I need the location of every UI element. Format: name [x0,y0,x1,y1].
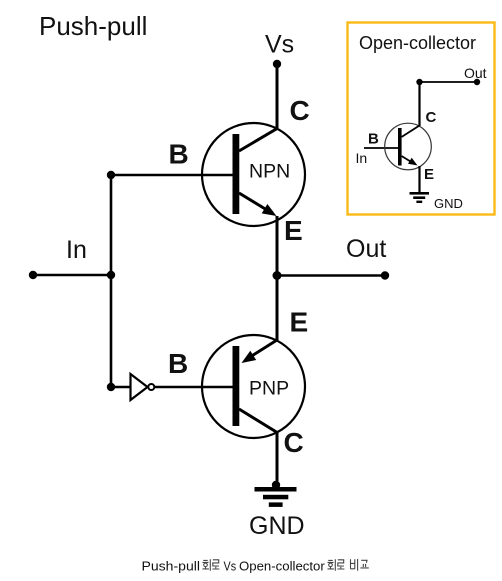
wire PNP collector to GND [276,432,279,485]
wire NPN base [111,174,233,177]
svg-text:Vs: Vs [224,559,237,574]
svg-text:C: C [284,427,304,458]
inset transistor Q3 [385,123,432,170]
svg-text:Open-collector: Open-collector [359,33,476,53]
caption hangul 회로 (2) [328,559,345,571]
transistor Q1 NPN [202,123,305,226]
caption hangul 비교 [351,559,369,571]
svg-text:E: E [284,215,303,246]
inset wire collector vertical [418,82,420,126]
node B junction (NPN base) [107,171,115,179]
node In terminal [29,271,37,279]
svg-text:Out: Out [464,65,487,81]
svg-text:C: C [290,95,310,126]
svg-text:E: E [290,307,309,338]
svg-text:B: B [368,131,379,148]
svg-text:Out: Out [346,235,386,263]
wire NPN emitter to PNP emitter [276,216,279,341]
node In junction [107,271,115,279]
caption hangul 회로 (1) [203,559,220,571]
svg-text:Push-pull: Push-pull [39,11,147,41]
svg-text:GND: GND [249,512,305,540]
wire to inverter [111,386,130,389]
node Vs terminal [273,60,281,68]
svg-text:C: C [426,109,437,126]
wire inverter to PNP base [155,386,233,389]
wire Vs to NPN collector [276,64,279,130]
inset node out terminal [474,79,480,85]
svg-text:In: In [356,150,368,166]
svg-text:E: E [424,166,434,183]
svg-text:Open-collector: Open-collector [239,559,325,574]
open-collector inset box [348,23,495,215]
wire In [33,274,111,277]
caption [142,559,369,574]
wire input rail vertical [110,175,113,387]
inset wire base [364,147,399,149]
svg-text:In: In [66,236,87,264]
svg-text:Vs: Vs [265,31,294,59]
inset wire emitter to ground [418,166,420,193]
inset ground symbol [410,192,430,203]
ground symbol [255,487,297,507]
inverter U1 [131,374,155,400]
svg-text:PNP: PNP [249,378,289,400]
node Out junction [273,271,282,280]
svg-text:Push-pull: Push-pull [142,559,201,574]
wire Out [277,274,385,277]
transistor Q2 PNP [202,335,305,438]
svg-text:GND: GND [434,196,463,211]
inset node collector junction [416,79,422,85]
node inverter input junction [107,383,115,391]
svg-text:NPN: NPN [249,161,290,183]
node GND junction [272,481,280,489]
node Out terminal [381,271,389,279]
svg-text:B: B [169,139,189,170]
inset wire out [420,81,478,83]
svg-text:B: B [168,348,188,379]
